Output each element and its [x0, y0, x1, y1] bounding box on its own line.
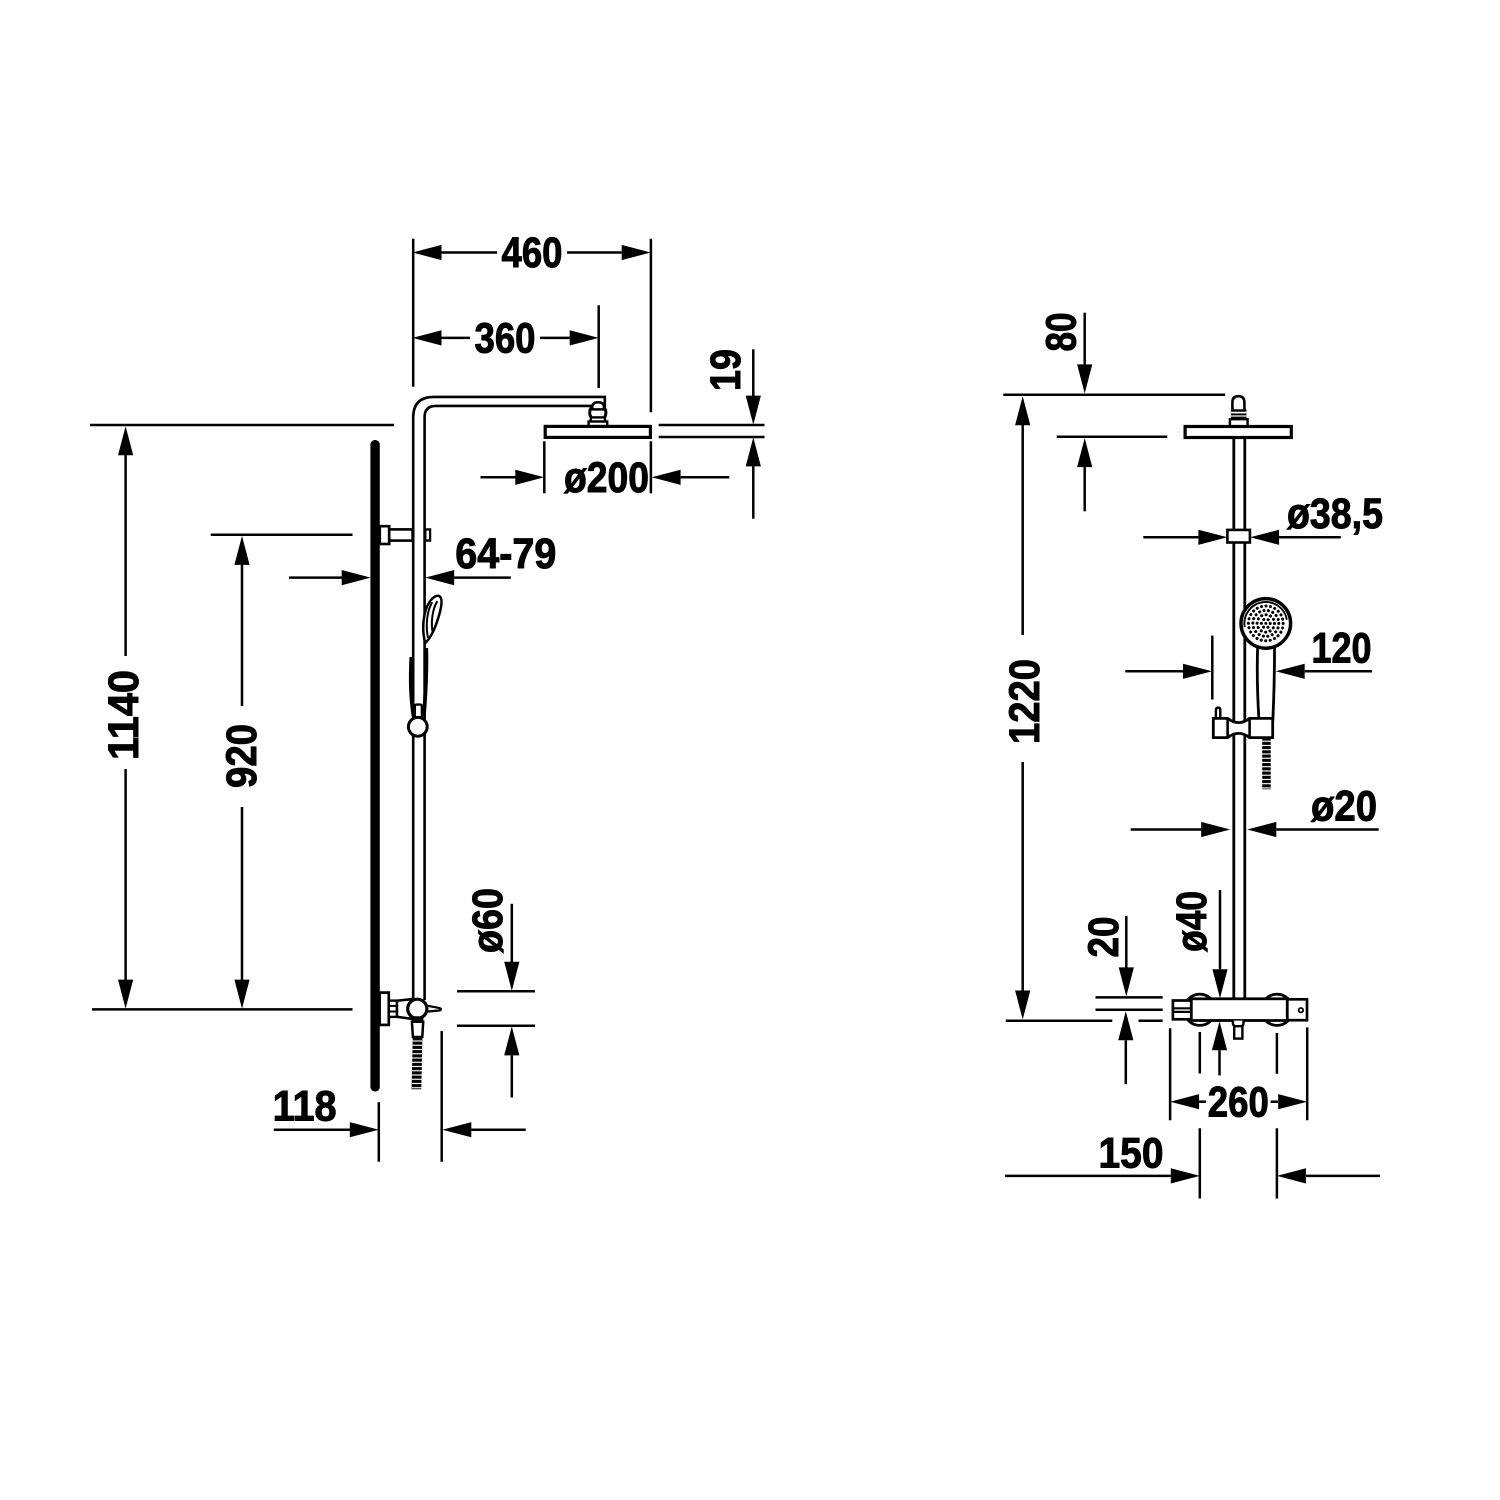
svg-text:150: 150 [1099, 1130, 1164, 1178]
svg-text:ø60: ø60 [464, 888, 512, 953]
svg-text:80: 80 [1037, 313, 1085, 352]
svg-text:360: 360 [475, 315, 536, 363]
svg-text:ø38,5: ø38,5 [1287, 490, 1383, 538]
svg-text:1220: 1220 [1001, 659, 1049, 744]
svg-text:20: 20 [1080, 917, 1128, 958]
svg-text:19: 19 [702, 349, 750, 391]
svg-text:118: 118 [273, 1083, 337, 1131]
svg-text:920: 920 [218, 724, 266, 788]
svg-text:460: 460 [502, 229, 563, 277]
svg-text:120: 120 [1312, 624, 1372, 672]
svg-text:ø200: ø200 [564, 454, 649, 502]
svg-text:ø20: ø20 [1311, 783, 1377, 831]
svg-text:260: 260 [1208, 1078, 1269, 1126]
svg-text:ø40: ø40 [1168, 891, 1216, 952]
svg-text:1140: 1140 [100, 670, 148, 760]
svg-text:64-79: 64-79 [455, 530, 556, 578]
